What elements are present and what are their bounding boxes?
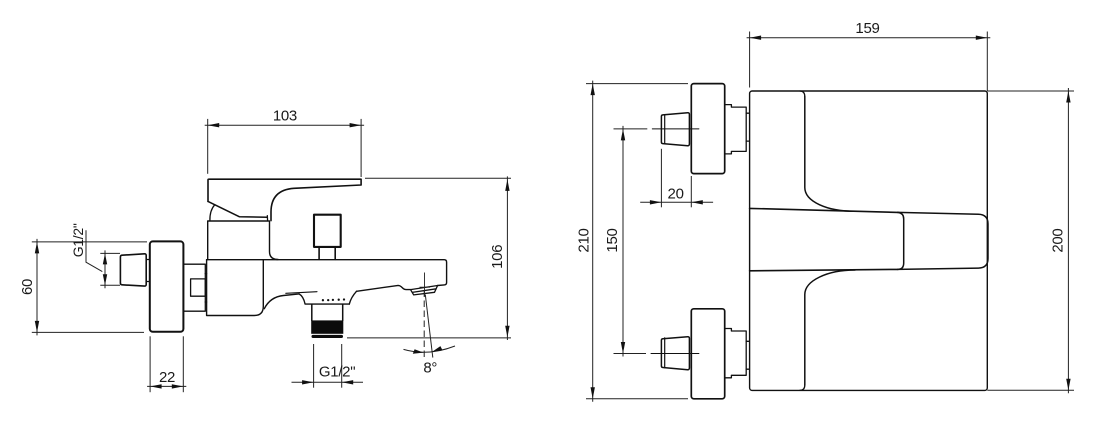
valve body block xyxy=(207,260,264,316)
top inlet hex nut xyxy=(661,113,689,146)
top inlet escutcheon xyxy=(691,84,724,174)
dimension 60 xyxy=(32,239,147,336)
dimension 210 xyxy=(586,81,688,402)
dimension G1/2 bottom xyxy=(292,344,364,388)
diverter knob xyxy=(314,215,341,247)
svg-text:210: 210 xyxy=(575,228,592,252)
cartridge housing block xyxy=(208,221,269,260)
thread bottom band xyxy=(312,335,344,338)
perlator dots xyxy=(322,298,345,301)
body top line and spout right end xyxy=(207,260,447,286)
handle inner divider rounded end xyxy=(898,212,904,269)
top inlet axis line xyxy=(652,128,699,130)
bottom inlet stub xyxy=(725,329,747,378)
spout near-side underside line xyxy=(286,292,317,294)
dimension G1/2 left (inlet thread) xyxy=(86,230,120,288)
handle outer end xyxy=(898,212,988,269)
svg-text:150: 150 xyxy=(604,228,621,252)
svg-text:22: 22 xyxy=(159,369,175,386)
svg-text:G1/2": G1/2" xyxy=(70,223,86,257)
bottom inlet escutcheon xyxy=(691,309,724,399)
svg-text:200: 200 xyxy=(1049,229,1066,253)
dimension 20 xyxy=(640,149,713,208)
dimension 106 xyxy=(347,176,511,340)
dimension 200 xyxy=(987,88,1074,393)
svg-text:103: 103 xyxy=(273,107,297,124)
8 deg angle arc xyxy=(404,346,456,352)
spout underside sweep from valve body xyxy=(264,294,299,309)
inner contour upper vertical with sweep into handle top xyxy=(805,97,855,212)
aerator centerline xyxy=(420,273,431,297)
aerator tip (8 deg tilted) xyxy=(411,286,438,295)
connector notch ticks xyxy=(205,274,206,302)
cartridge dome arc xyxy=(210,205,215,221)
shower outlet flare right xyxy=(349,291,356,304)
svg-text:G1/2": G1/2" xyxy=(319,363,355,380)
bottom inlet axis line xyxy=(651,353,699,355)
svg-text:8°: 8° xyxy=(423,359,437,376)
handle bar left end caps xyxy=(749,208,751,270)
inlet neck xyxy=(146,260,150,282)
diverter knob stem xyxy=(319,248,335,259)
wall flange xyxy=(150,241,184,331)
lever underside diagonal xyxy=(208,201,267,217)
wall connector rect B xyxy=(191,279,206,296)
dimension 159 xyxy=(747,32,991,92)
dimension 103 xyxy=(205,119,364,177)
dimension 22 xyxy=(147,336,186,392)
inner contour top corner xyxy=(800,91,805,97)
8 deg dashed vertical xyxy=(423,291,425,360)
svg-text:20: 20 xyxy=(668,186,684,203)
inner contour lower vertical with sweep into handle bottom xyxy=(805,270,855,385)
handle bar bottom edge xyxy=(750,269,898,270)
svg-text:60: 60 xyxy=(19,279,36,295)
shower outlet flare left xyxy=(299,294,349,304)
wall connector rect A xyxy=(183,264,205,311)
inner contour bottom corner xyxy=(800,385,805,390)
svg-text:159: 159 xyxy=(855,20,879,37)
bottom inlet hex nut xyxy=(661,337,689,370)
8 deg slant line xyxy=(425,295,433,358)
lever front end tick xyxy=(266,216,268,221)
top inlet stub xyxy=(725,105,747,154)
svg-text:106: 106 xyxy=(489,245,506,269)
body outer rectangle xyxy=(750,91,988,390)
dimension 150 xyxy=(614,126,648,357)
lever handle side profile xyxy=(208,179,361,220)
handle bar top edge xyxy=(750,208,898,212)
inlet hex nut xyxy=(120,254,146,286)
shower outlet thread block xyxy=(311,320,343,333)
shower outlet collar xyxy=(312,304,343,320)
long underside line to tip with step xyxy=(357,285,411,291)
